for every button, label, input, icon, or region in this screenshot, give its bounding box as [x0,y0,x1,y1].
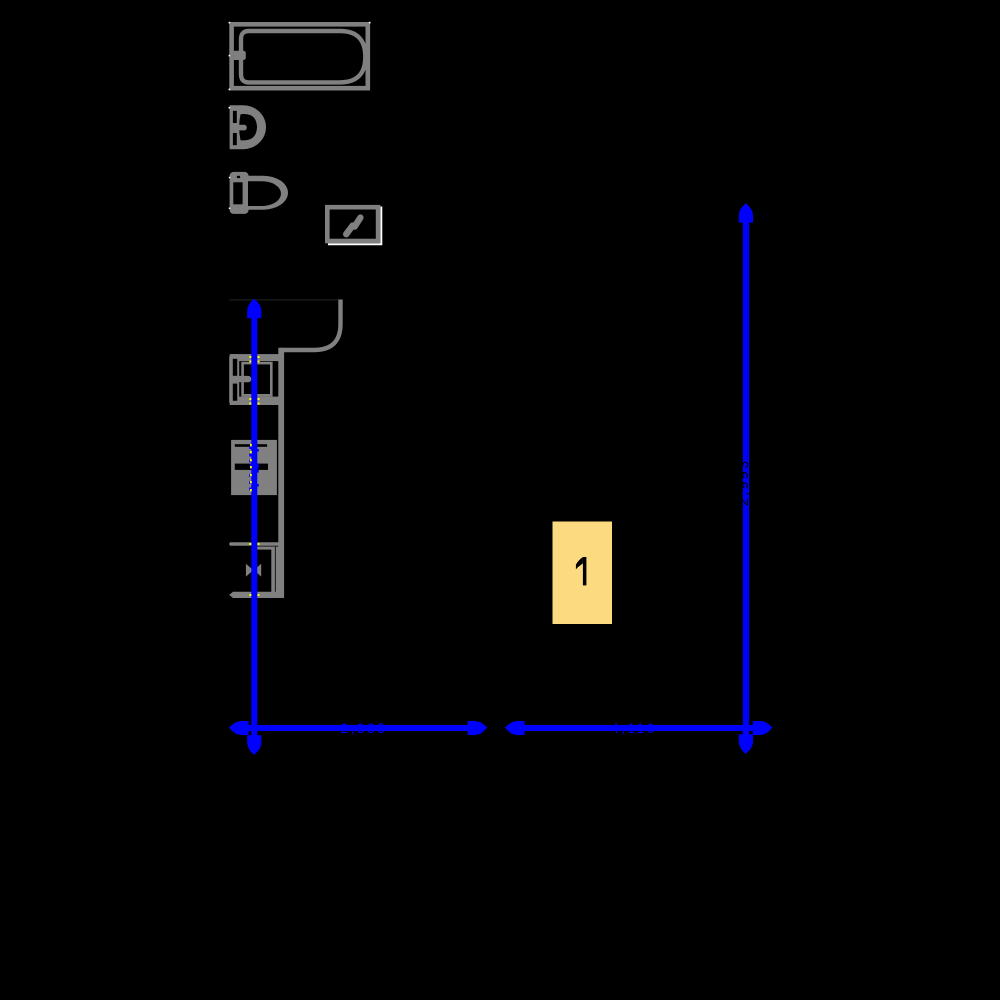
sink unit top bar [230,354,279,361]
sink unit left slots [233,359,237,376]
counter right edge bar [278,348,284,598]
dimension vline right [743,212,749,740]
room label text 1 (drawn glyph) [583,557,587,585]
dimension vline left [251,308,257,740]
stove top line [235,444,267,447]
toilet bowl ring [247,176,288,210]
svg-text:2,993: 2,993 [735,458,751,506]
hline span1 right arrow [468,721,488,735]
washbasin bowl [239,114,257,140]
dimension hline span1 [238,725,470,731]
wall line top faint [229,299,339,301]
cabinet box top edge [252,547,273,550]
toilet tank slot [233,182,242,204]
cabinet top line [229,542,283,545]
cabinet bottom line [229,592,283,598]
bathtub corner specks [229,22,231,24]
vline left dim text wiggle (blue bumps over stove) [249,446,259,491]
hline span2 left arrow [505,721,525,735]
washbasin body [230,105,266,149]
cabinet inner door line [276,547,279,594]
vline right top arrow [739,203,753,223]
toilet tank [230,172,249,214]
sink unit left bar [229,354,239,405]
counter curve [280,300,341,351]
sink tap tab [237,376,251,382]
bathtub overflow tab [234,51,246,60]
bathtub inner tub [241,31,365,82]
sink basin rect [243,363,272,395]
toilet tank button [237,176,240,178]
vline left bottom arrow [247,735,261,755]
svg-text:2,335: 2,335 [341,721,388,736]
toilet corner specks [229,177,231,179]
svg-text:4,110: 4,110 [611,721,657,736]
washbasin left slots [233,111,237,123]
yellow intersection specks sink bars [249,356,259,596]
valve symbol [246,564,254,577]
bathtub outer rect [232,24,368,88]
electrical box [327,207,378,241]
hline span1 left arrow [229,721,249,735]
cabinet box right edge [271,547,275,594]
vline right bottom arrow [739,734,753,754]
stove body [231,440,277,495]
hline span2 right arrow [753,721,773,735]
stove handle bar [235,464,268,470]
dimension hline span2 [514,725,764,731]
electrical box white shadow [328,207,382,246]
vline left top arrow [247,298,261,318]
sink unit bottom bar [230,397,279,405]
washbasin tap tab [234,125,247,131]
yellow text specks along stove crossing [250,444,252,446]
room label box 1 [553,522,613,625]
electrical box switch mark [346,226,352,235]
